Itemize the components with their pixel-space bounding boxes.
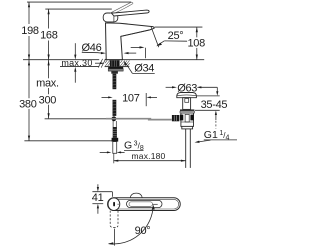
label 108 [187,38,205,48]
stem [183,98,191,110]
90 degree arc [109,205,154,244]
body [181,113,194,126]
dim line 380 vertical [28,60,30,99]
hose end fitting G3/8 [113,142,117,154]
dim line 198 vertical [28,2,30,24]
handle raised phantom lines [109,2,131,13]
label 380 [19,99,37,109]
svg-text:Ø63: Ø63 [177,82,197,94]
flexible hose banded tube [113,127,117,138]
dim max.180 [113,160,185,162]
handle knob [103,13,118,22]
rod knob [172,115,179,121]
dim line max.300 vertical [48,60,50,79]
collar [180,109,194,111]
threaded stud lower [113,100,117,116]
G 3/8 underline [124,149,144,151]
label max. [36,78,60,88]
handle lever blade [112,10,150,16]
knob circle [108,198,120,211]
ref line 2 (168 height) [45,8,112,10]
hose nut [112,138,119,142]
deck top line [23,59,99,61]
inner stadium outline [109,199,179,209]
dim line 108 vertical [196,27,198,37]
label 300 [39,95,57,105]
dim 41 [92,184,112,214]
horizontal angle arrow line [131,46,141,48]
svg-text:35-45: 35-45 [201,99,228,111]
ref line max300 bottom (pop-up rod level) [45,118,106,120]
threaded stud upper [113,74,117,90]
25 deg underline [164,40,187,42]
outer stadium outline [108,198,181,211]
25 deg leader [158,41,164,45]
ref line top (198 max height) [27,1,131,3]
vertical ref line below spout [113,229,115,246]
35-45 extension lines [195,95,220,97]
dim Ø46 leader and arrows [82,51,99,53]
svg-text:25°: 25° [168,30,184,42]
ball joint [112,116,117,121]
svg-text:max.: max. [36,78,59,90]
centre tick [153,203,158,205]
bump on top (lever tip) [130,193,142,198]
tailpiece [185,129,187,168]
svg-text:max.180: max.180 [131,151,165,161]
G 3/8 arrows [100,151,108,153]
svg-text:Ø46: Ø46 [82,42,102,54]
max.30 leader arrow [95,62,100,64]
vertical line below spout [145,48,147,59]
pop-up horizontal rod [106,118,151,120]
spray slant extension line [151,27,159,47]
svg-text:90°: 90° [135,225,151,237]
pop-up waste drawing [172,93,197,168]
arrowheads: left dimension column [28,2,198,141]
pull rod stem below ball [112,121,114,127]
svg-text:max.30: max.30 [61,58,92,68]
label 198 [21,24,39,36]
max.30 dimension arrows through deck [74,43,76,55]
108 top ref line (spout level) [155,26,203,28]
deck bottom line [60,66,99,68]
bottom connector [182,126,193,128]
deck break slashes [98,59,102,68]
dim line 168 vertical [48,9,50,28]
lever outline top view [127,200,163,207]
deck hatch near shank [105,60,130,66]
25 degree spray construction [131,27,188,58]
svg-text:380: 380 [19,99,37,111]
svg-text:Ø34: Ø34 [134,63,154,75]
dim Ø34 leader [132,72,154,74]
svg-text:107: 107 [122,92,140,104]
flange dome [177,93,197,98]
svg-text:41: 41 [92,192,104,204]
ref line 380 bottom [24,140,112,142]
svg-text:168: 168 [40,30,58,42]
hidden spout (dashed U) [110,211,118,228]
faucet body (side view) [106,23,155,60]
svg-text:198: 198 [21,25,39,37]
label 168 [40,29,58,41]
G 1 1/4 underline and leader [204,139,237,141]
threaded shank through deck [110,60,120,66]
svg-text:108: 108 [187,37,205,49]
label Ø63 [177,83,197,92]
svg-text:300: 300 [39,95,57,107]
hose centerline extension [113,154,115,164]
mounting nut [108,67,123,69]
dim 107 [102,93,158,106]
pop-up waste Ø63 dimension [166,86,173,88]
